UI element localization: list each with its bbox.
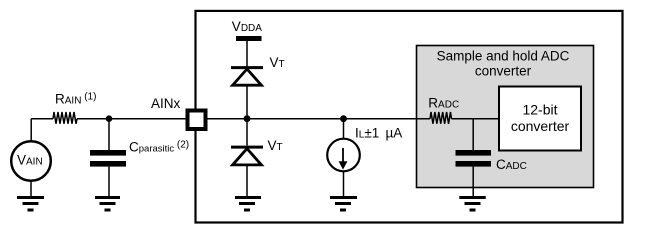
- wire: Cparasitic to ground: [108, 167, 110, 196]
- wire: diode D2 to ground: [246, 166, 248, 196]
- current source IL: [327, 139, 360, 172]
- svg-text:converter: converter: [475, 64, 532, 79]
- VDDA supply bar: [236, 36, 262, 41]
- capacitor Cparasitic: [90, 150, 126, 167]
- diode VT bottom (to ground): [231, 147, 263, 165]
- svg-text:AINx: AINx: [151, 96, 181, 111]
- wire: diode D1 to node: [246, 86, 248, 118]
- sample and hold ADC shaded box: [417, 46, 594, 188]
- label: 12-bit converter: [511, 102, 570, 135]
- wire: CADC to ground: [472, 167, 474, 196]
- node: junction dot at diode branch: [244, 115, 251, 122]
- wire: down to CADC: [472, 119, 474, 150]
- capacitor CADC: [456, 150, 492, 167]
- wire: main horizontal left of RAIN: [31, 118, 53, 120]
- svg-text:Sample and hold ADC: Sample and hold ADC: [437, 49, 570, 64]
- wire: down to Cparasitic: [108, 119, 110, 150]
- outer chip rectangle: [196, 11, 623, 223]
- ground under CADC: [459, 198, 485, 211]
- wire: main wire down to VAIN: [30, 119, 32, 142]
- diode VT top (to VDDA): [231, 68, 263, 86]
- svg-text:converter: converter: [511, 118, 570, 134]
- wire: VDDA bar to diode D1: [246, 41, 248, 67]
- pin AINx box: [188, 111, 206, 130]
- resistor RAIN: [53, 112, 77, 124]
- ground under current source: [330, 198, 357, 211]
- node: junction dot at current source branch: [340, 115, 347, 122]
- voltage source VAIN: [11, 141, 51, 181]
- wire: VAIN to ground: [30, 181, 32, 196]
- wire: RAIN to AINx box: [77, 118, 186, 120]
- wire: AINx box to RADC: [207, 118, 430, 120]
- ground under diode D2: [235, 198, 261, 211]
- current source arrow: [339, 148, 348, 170]
- 12-bit converter box: [499, 87, 581, 151]
- wire: RADC to 12-bit converter box: [452, 118, 500, 120]
- svg-text:12-bit: 12-bit: [522, 102, 557, 118]
- ground under Cparasitic: [95, 198, 120, 211]
- label: Sample and hold ADC converter: [437, 49, 570, 79]
- wire: node to current source: [343, 119, 345, 139]
- wire: current source to ground: [343, 171, 345, 196]
- wire: node to diode D2: [246, 119, 248, 146]
- node: junction dot at Cparasitic branch: [106, 115, 113, 122]
- resistor RADC: [430, 112, 452, 124]
- ground under VAIN: [17, 198, 44, 211]
